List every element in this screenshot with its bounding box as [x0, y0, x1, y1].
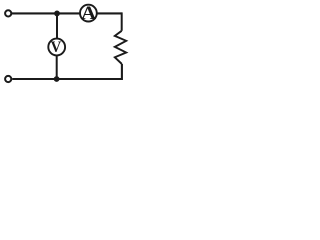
terminal bottom-left — [5, 76, 11, 82]
wire right vertical bottom lead — [12, 64, 122, 79]
node junction bottom — [54, 76, 60, 82]
wire top from left terminal to ammeter — [12, 12, 80, 14]
wire top from ammeter to right corner — [97, 12, 122, 14]
svg-text:V: V — [51, 38, 62, 56]
ammeter A — [80, 3, 97, 24]
terminal top-left — [5, 10, 11, 16]
svg-text:A: A — [81, 3, 97, 24]
voltmeter V — [48, 38, 65, 56]
resistor R — [115, 31, 126, 64]
wire right vertical top lead — [121, 12, 123, 30]
wire voltmeter branch upper — [56, 13, 58, 38]
wire voltmeter branch lower — [56, 56, 58, 79]
node junction top — [54, 11, 60, 17]
